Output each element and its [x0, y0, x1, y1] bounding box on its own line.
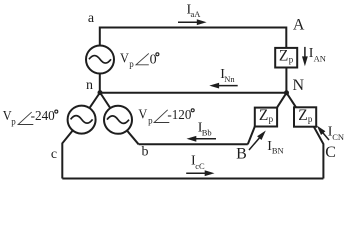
- svg-text:p: p: [148, 115, 153, 125]
- svg-text:a: a: [88, 11, 95, 26]
- svg-text:b: b: [142, 144, 149, 159]
- svg-text:Z: Z: [259, 107, 268, 124]
- label Zp (phase A): [279, 48, 294, 65]
- svg-text:BN: BN: [272, 146, 284, 156]
- svg-text:c: c: [51, 147, 57, 162]
- svg-text:Z: Z: [279, 48, 288, 65]
- label IaA: [187, 2, 202, 19]
- svg-text:Z: Z: [298, 107, 307, 124]
- wire n to source Vp -120: [100, 93, 110, 108]
- label Vp -120deg: [138, 106, 194, 125]
- svg-text:Nn: Nn: [224, 74, 235, 84]
- node N dot: [284, 90, 289, 95]
- current arrow IAN: [302, 47, 308, 66]
- label Zp (phase C): [298, 107, 313, 124]
- svg-text:V: V: [138, 106, 147, 121]
- wire a to A (top line): [100, 28, 286, 49]
- current arrow IcC: [186, 170, 214, 176]
- svg-text:p: p: [269, 114, 274, 124]
- label INn: [220, 67, 235, 84]
- impedance Zp (phase A) box: [275, 48, 297, 68]
- label ICN: [328, 124, 344, 142]
- current arrow INn: [209, 83, 237, 89]
- current arrow ICN: [317, 126, 329, 141]
- svg-text:-240: -240: [31, 109, 55, 124]
- svg-text:A: A: [293, 16, 305, 33]
- wire Zp to N: [285, 68, 287, 93]
- svg-text:-120: -120: [167, 108, 191, 123]
- wire n to source Vp -240: [90, 93, 100, 108]
- current arrow IaA: [178, 19, 207, 25]
- svg-text:p: p: [129, 59, 134, 69]
- label Zp (phase B): [259, 107, 274, 124]
- svg-text:B: B: [236, 145, 247, 162]
- svg-text:p: p: [289, 54, 294, 64]
- svg-text:aA: aA: [191, 9, 202, 19]
- svg-text:CN: CN: [332, 132, 344, 142]
- svg-text:N: N: [293, 77, 305, 94]
- svg-text:Bb: Bb: [202, 127, 212, 137]
- impedance Zp (phase B) box: [255, 108, 277, 127]
- svg-text:C: C: [325, 144, 336, 161]
- wire b to B: [139, 143, 248, 145]
- label Vp -240deg: [3, 108, 58, 127]
- wire source -120 to node b: [127, 131, 138, 144]
- wire N to Zp (phase C): [287, 93, 297, 108]
- svg-text:n: n: [86, 78, 93, 93]
- current arrow IBb: [187, 136, 217, 142]
- svg-text:p: p: [11, 117, 16, 127]
- wire source -240 to node c: [62, 131, 72, 179]
- wire Zp (phase C) to C: [314, 127, 324, 179]
- source Vp -240deg circle: [68, 106, 96, 134]
- svg-text:cC: cC: [195, 161, 205, 171]
- wire n to N: [100, 92, 287, 94]
- label IBN: [267, 139, 283, 156]
- label Vp 0deg: [120, 50, 159, 69]
- svg-text:p: p: [308, 114, 313, 124]
- node n dot: [98, 90, 103, 95]
- label IBb: [198, 121, 212, 138]
- label IAN: [309, 46, 326, 63]
- current arrow IBN: [249, 131, 266, 151]
- impedance Zp (phase C) box: [294, 107, 316, 126]
- label IcC: [191, 154, 205, 171]
- svg-text:V: V: [120, 50, 129, 65]
- source Vp -120deg circle: [104, 106, 132, 134]
- svg-text:AN: AN: [314, 54, 326, 64]
- wire N to Zp (phase B): [277, 93, 287, 108]
- wire source to node n: [99, 74, 101, 93]
- wire B to Zp (phase B): [248, 127, 255, 145]
- wire c to C (bottom line): [62, 178, 323, 180]
- source Vp 0deg circle: [86, 46, 114, 74]
